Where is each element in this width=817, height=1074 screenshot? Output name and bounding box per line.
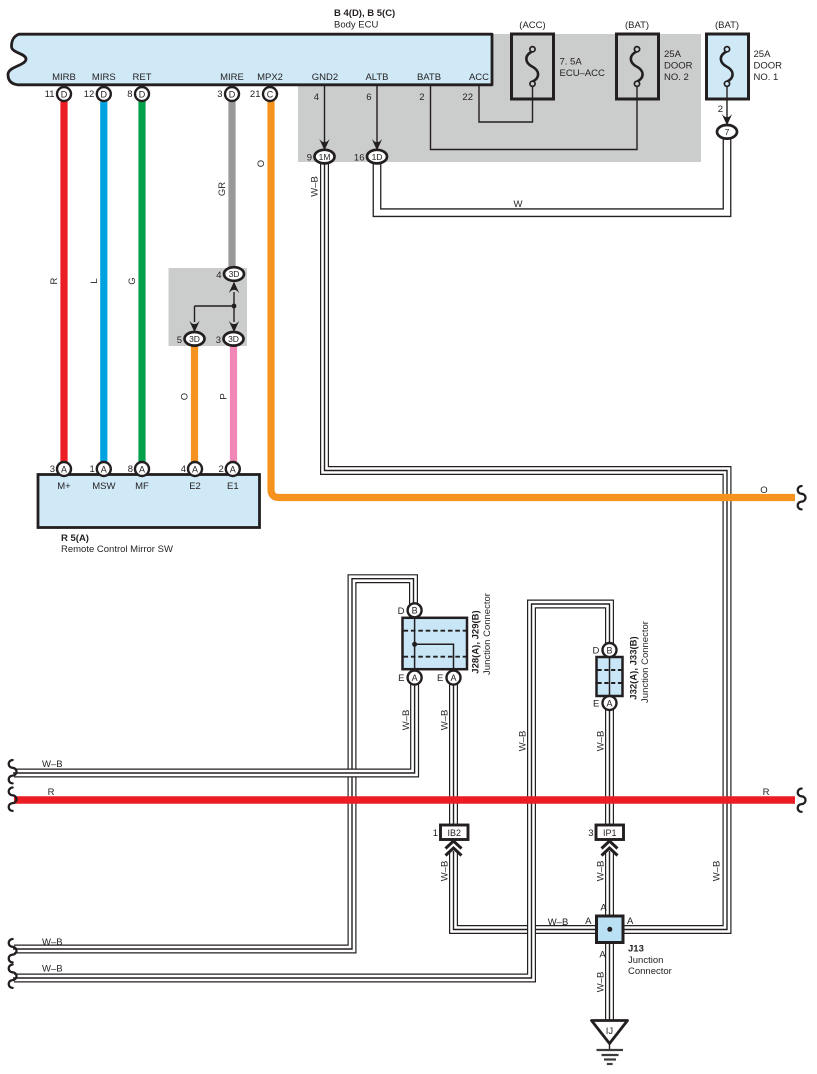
connector 3 3D — [216, 332, 244, 346]
wire W-B loop from left edge to J32 pin B — [13, 604, 610, 978]
wire W-B from IB2 down then right to J13 — [440, 851, 600, 930]
connector 16 1D — [354, 150, 387, 164]
pin 8 A MF — [128, 462, 149, 476]
junction connector J32(A),J33(B) — [597, 621, 652, 703]
connector 4 3D — [216, 267, 244, 281]
svg-text:W–B: W–B — [42, 759, 63, 770]
svg-text:W–B: W–B — [401, 710, 412, 731]
break symbol left W-B upper — [9, 760, 17, 783]
svg-text:W–B: W–B — [42, 964, 63, 975]
svg-text:W–B: W–B — [596, 861, 607, 882]
svg-text:E: E — [398, 673, 404, 684]
fuse DOOR NO.1 25A — [707, 20, 783, 99]
in-line connector 1 IB2 — [433, 825, 468, 856]
pin 2 A E1 — [219, 462, 240, 476]
svg-text:O: O — [180, 393, 191, 400]
connector 7 — [717, 125, 737, 139]
svg-text:A: A — [230, 464, 236, 474]
svg-text:B 4(D), B 5(C): B 4(D), B 5(C) — [334, 8, 395, 19]
svg-text:J28(A), J29(B): J28(A), J29(B) — [471, 610, 482, 673]
svg-text:NO. 2: NO. 2 — [664, 72, 689, 83]
svg-text:1D: 1D — [372, 152, 383, 162]
svg-text:DOOR: DOOR — [754, 61, 783, 72]
Body ECU block B4(D)/B5(C) — [8, 8, 492, 85]
svg-text:ACC: ACC — [469, 72, 489, 83]
svg-text:3: 3 — [50, 464, 55, 475]
svg-text:4: 4 — [181, 464, 186, 475]
in-line connector 3 IP1 — [588, 825, 623, 856]
svg-text:3: 3 — [216, 335, 221, 346]
connector 9 1M — [307, 150, 335, 164]
svg-text:D: D — [398, 606, 405, 617]
wire W-B from J28 right pin A to IB2 — [440, 682, 454, 827]
svg-text:Junction: Junction — [628, 955, 663, 966]
break symbol left W-B lower2 — [9, 965, 17, 988]
svg-text:Body ECU: Body ECU — [334, 20, 378, 31]
svg-text:O: O — [256, 160, 267, 167]
svg-text:IJ: IJ — [606, 1026, 614, 1037]
svg-text:Junction Connector: Junction Connector — [482, 593, 493, 675]
svg-text:Connector: Connector — [628, 966, 672, 977]
wire W-B from IP1 down to J13 — [596, 851, 610, 918]
svg-text:25A: 25A — [664, 49, 682, 60]
svg-text:O: O — [760, 485, 767, 496]
svg-text:A: A — [139, 464, 145, 474]
svg-text:(BAT): (BAT) — [715, 20, 739, 31]
fuse DOOR NO.2 25A — [617, 20, 693, 99]
pin 1 A MSW — [90, 462, 111, 476]
svg-text:P: P — [219, 393, 230, 399]
pin E A of J32 — [593, 696, 616, 710]
pin 3 A M+ — [50, 462, 71, 476]
svg-text:3D: 3D — [228, 334, 239, 344]
svg-text:9: 9 — [307, 153, 312, 164]
svg-text:E2: E2 — [189, 481, 201, 492]
svg-text:1M: 1M — [319, 152, 331, 162]
svg-text:W–B: W–B — [518, 731, 529, 752]
svg-text:IP1: IP1 — [603, 828, 617, 838]
svg-text:MIRS: MIRS — [92, 72, 116, 83]
pin 21 C MPX2 — [250, 87, 277, 101]
svg-text:5: 5 — [177, 335, 182, 346]
svg-text:D: D — [101, 89, 108, 99]
svg-text:2: 2 — [219, 464, 224, 475]
svg-text:7: 7 — [725, 127, 730, 137]
svg-text:16: 16 — [354, 153, 365, 164]
wire L blue MIRS — [89, 100, 104, 463]
break symbol right O — [798, 486, 806, 509]
pin 12 D MIRS — [84, 87, 111, 101]
svg-text:W–B: W–B — [310, 176, 321, 197]
svg-text:3: 3 — [217, 89, 222, 100]
wire O orange from 5(3D) to E2 — [180, 345, 195, 463]
svg-text:DOOR: DOOR — [664, 61, 693, 72]
svg-text:E: E — [593, 699, 599, 710]
svg-text:25A: 25A — [754, 49, 772, 60]
junction connector J28(A),J29(B) — [403, 593, 494, 675]
svg-text:W: W — [514, 199, 523, 210]
wire ACC pin 22 to fuse — [462, 86, 532, 122]
svg-text:Remote Control Mirror SW: Remote Control Mirror SW — [61, 544, 173, 555]
svg-text:MF: MF — [135, 481, 149, 492]
gray shaded region mid-left (3D connector area) — [169, 268, 248, 346]
svg-text:W–B: W–B — [596, 972, 607, 993]
svg-text:7. 5A: 7. 5A — [560, 57, 583, 68]
svg-text:11: 11 — [45, 89, 55, 100]
svg-text:L: L — [89, 278, 100, 283]
svg-text:A: A — [627, 916, 634, 927]
svg-text:W–B: W–B — [712, 861, 723, 882]
svg-text:A: A — [600, 903, 607, 914]
svg-text:2: 2 — [419, 92, 424, 103]
svg-text:GND2: GND2 — [312, 72, 338, 83]
wire BATB pin 2 to fuse — [419, 86, 637, 150]
svg-text:12: 12 — [84, 89, 95, 100]
svg-text:W–B: W–B — [596, 731, 607, 752]
svg-text:R 5(A): R 5(A) — [61, 533, 89, 544]
svg-text:(BAT): (BAT) — [625, 20, 649, 31]
svg-text:RET: RET — [133, 72, 152, 83]
svg-text:D: D — [61, 89, 68, 99]
svg-text:1: 1 — [90, 464, 95, 475]
svg-text:ECU–ACC: ECU–ACC — [560, 68, 606, 79]
ground IJ — [592, 1021, 628, 1065]
wire W-B from J28 left pin A to left edge — [13, 682, 415, 773]
svg-text:MIRE: MIRE — [220, 72, 244, 83]
svg-text:A: A — [450, 673, 456, 683]
wire R red horizontal — [14, 787, 795, 800]
wire W-B from J32 pin A to IP1 — [596, 707, 610, 827]
svg-text:R: R — [763, 787, 770, 798]
svg-text:G: G — [127, 277, 138, 284]
wire W-B from 1M down, right, down right side to J13 — [310, 162, 728, 930]
wire W from 1D to 7 — [377, 137, 727, 213]
fuse ECU-ACC 7.5A — [512, 20, 606, 99]
svg-text:MPX2: MPX2 — [257, 72, 283, 83]
svg-text:J32(A), J33(B): J32(A), J33(B) — [629, 636, 640, 699]
wire W-B from J13 down to ground IJ — [596, 941, 610, 1021]
pin 8 D RET — [127, 87, 149, 101]
svg-text:MIRB: MIRB — [52, 72, 76, 83]
pin 4 A E2 — [181, 462, 202, 476]
svg-text:4: 4 — [314, 92, 319, 103]
svg-text:W–B: W–B — [548, 917, 569, 928]
svg-text:22: 22 — [462, 92, 473, 103]
wire GND2 pin 4 to 1M — [314, 86, 330, 150]
svg-text:4: 4 — [216, 270, 221, 281]
svg-text:W–B: W–B — [440, 861, 451, 882]
wire ALTB pin 6 to 1D — [366, 86, 382, 150]
Remote Control Mirror SW block R5(A) — [38, 475, 260, 556]
pin E A right of J28 — [437, 671, 460, 685]
svg-text:6: 6 — [366, 92, 371, 103]
svg-text:3D: 3D — [229, 269, 240, 279]
svg-text:A: A — [599, 950, 606, 961]
svg-text:A: A — [585, 916, 592, 927]
svg-text:A: A — [192, 464, 198, 474]
svg-text:MSW: MSW — [92, 481, 115, 492]
wire fuse DOOR NO.1 pin 2 to connector 7 — [718, 86, 733, 125]
wire P pink from 3(3D) to E1 — [219, 345, 234, 463]
break symbol right R — [798, 789, 806, 812]
svg-text:(ACC): (ACC) — [519, 20, 545, 31]
wire W-B loop from left edge to J28 pin B — [13, 579, 414, 949]
svg-text:M+: M+ — [57, 481, 71, 492]
pin 3 D MIRE — [217, 87, 239, 101]
svg-text:Junction Connector: Junction Connector — [640, 621, 651, 703]
svg-text:GR: GR — [217, 182, 228, 196]
svg-text:E: E — [437, 673, 443, 684]
svg-text:A: A — [606, 698, 612, 708]
svg-text:3: 3 — [588, 828, 593, 839]
svg-text:W–B: W–B — [440, 710, 451, 731]
pin D B of J28 — [398, 603, 422, 617]
svg-text:NO. 1: NO. 1 — [754, 72, 779, 83]
svg-text:1: 1 — [433, 828, 438, 839]
svg-text:W–B: W–B — [42, 937, 63, 948]
break symbol left R — [9, 788, 17, 811]
3D junction assembly wires — [189, 282, 239, 333]
pin D B of J32 — [593, 643, 617, 657]
svg-text:A: A — [101, 464, 107, 474]
svg-text:D: D — [593, 646, 600, 657]
svg-text:R: R — [48, 787, 55, 798]
svg-text:D: D — [139, 89, 146, 99]
svg-text:IB2: IB2 — [447, 828, 461, 838]
pin E A left of J28 — [398, 671, 421, 685]
svg-text:21: 21 — [250, 89, 261, 100]
svg-text:J13: J13 — [628, 944, 644, 955]
wire R red MIRB — [49, 100, 64, 463]
wire O orange MPX2 long to right edge — [256, 100, 795, 498]
svg-text:R: R — [49, 277, 60, 284]
svg-text:ALTB: ALTB — [365, 72, 388, 83]
svg-text:B: B — [412, 606, 418, 616]
svg-text:8: 8 — [128, 464, 133, 475]
wire G green RET — [127, 100, 142, 463]
svg-text:2: 2 — [718, 104, 723, 115]
connector 5 3D — [177, 332, 205, 346]
svg-text:D: D — [229, 89, 236, 99]
wire GR gray MIRE to 4(3D) — [217, 100, 232, 268]
break symbol left W-B lower1 — [9, 939, 17, 962]
svg-text:3D: 3D — [189, 334, 200, 344]
svg-text:A: A — [61, 464, 67, 474]
svg-text:E1: E1 — [227, 481, 239, 492]
svg-text:C: C — [267, 89, 274, 99]
svg-text:8: 8 — [127, 89, 132, 100]
svg-text:B: B — [606, 645, 612, 655]
gray shaded region top (power source area) — [298, 34, 701, 162]
junction connector J13 — [585, 903, 672, 978]
pin 11 D MIRB — [45, 87, 71, 101]
svg-text:BATB: BATB — [417, 72, 441, 83]
svg-text:A: A — [412, 673, 418, 683]
